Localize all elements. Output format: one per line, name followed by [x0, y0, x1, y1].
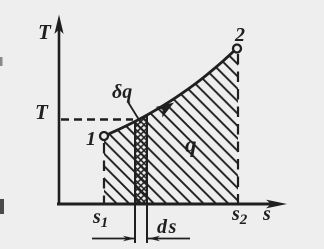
s axis arrowhead [266, 200, 287, 209]
svg-text:T: T [38, 20, 52, 44]
dashed vertical line at s1 [103, 143, 105, 203]
ds dimension: left extension arrow [92, 238, 135, 240]
svg-text:q: q [185, 132, 197, 157]
svg-text:1: 1 [86, 128, 96, 150]
svg-text:2: 2 [234, 24, 245, 46]
T axis [58, 22, 61, 204]
T axis arrowhead [54, 15, 63, 35]
strip left edge [134, 121, 136, 243]
scan artifact left edge [0, 199, 4, 214]
svg-text:s: s [262, 203, 271, 225]
dashed horizontal line at T [61, 118, 133, 120]
dashed vertical line at s2 [237, 54, 239, 203]
process curve 1-2 [107, 50, 235, 135]
cross-hatched strip ds [135, 108, 147, 204]
svg-text:δq: δq [112, 81, 132, 103]
hatched area q under curve [104, 48, 238, 204]
arrowhead on curve [156, 97, 178, 117]
ds dimension: right extension arrow [148, 238, 190, 240]
state point 1 [100, 132, 108, 140]
state point 2 [233, 45, 241, 53]
svg-text:d s: d s [157, 216, 177, 238]
s axis [57, 203, 278, 206]
leader line from delta-q [128, 102, 141, 123]
svg-text:T: T [35, 100, 49, 124]
strip right edge [146, 116, 148, 243]
